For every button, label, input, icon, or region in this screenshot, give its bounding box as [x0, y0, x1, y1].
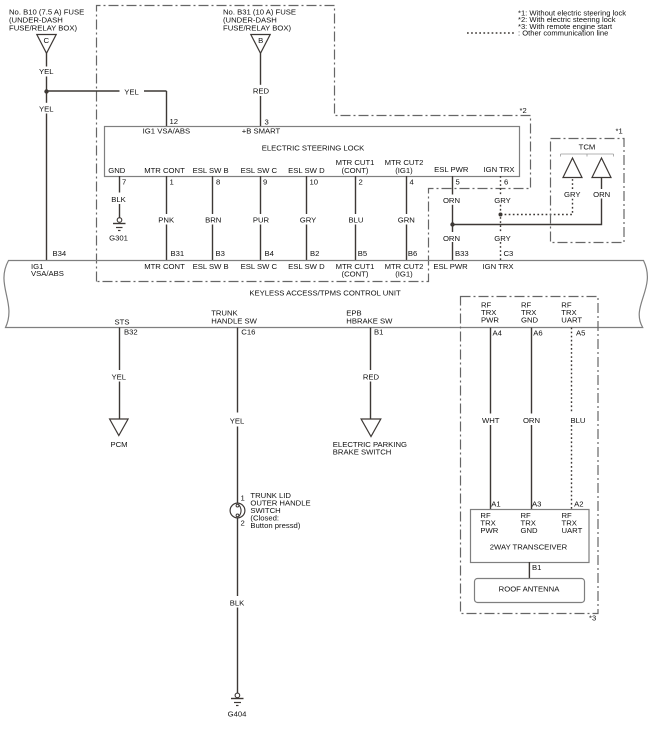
- ELECTRIC PARKING BRAKE SWITCH destination triangle: [361, 419, 381, 437]
- 2WAY TRANSCEIVER box: [471, 510, 590, 563]
- wire BLU MTR CUT1 pin2 to B5: [355, 176, 357, 214]
- svg-text:HANDLE SW: HANDLE SW: [211, 317, 257, 326]
- wire YEL branch right to pin 12: [47, 90, 120, 92]
- wire PNK MTR CONT pin1 to B31: [166, 176, 168, 214]
- svg-text:1: 1: [241, 494, 245, 503]
- svg-text:ESL SW D: ESL SW D: [288, 262, 325, 271]
- svg-text:2: 2: [241, 519, 245, 528]
- svg-text:YEL: YEL: [112, 372, 127, 381]
- svg-text:C: C: [44, 36, 50, 45]
- svg-text:HBRAKE SW: HBRAKE SW: [346, 317, 393, 326]
- svg-text:B34: B34: [53, 249, 67, 258]
- svg-text:GRY: GRY: [494, 234, 511, 243]
- svg-text:GRY: GRY: [494, 196, 511, 205]
- svg-text:BLK: BLK: [111, 195, 126, 204]
- svg-text:IGN TRX: IGN TRX: [482, 262, 513, 271]
- wire PUR ESL SW C pin9 to B4: [260, 176, 262, 214]
- wire ORN ESL PWR pin5 to B33 and TCM: [452, 176, 454, 195]
- svg-text:5: 5: [456, 177, 460, 186]
- svg-text:B33: B33: [455, 249, 469, 258]
- svg-text:ESL PWR: ESL PWR: [434, 165, 469, 174]
- wire WHT RF TRX PWR: [490, 328, 492, 414]
- svg-text:1: 1: [170, 177, 174, 186]
- svg-text:FUSE/RELAY BOX): FUSE/RELAY BOX): [9, 24, 78, 33]
- svg-text:ESL SW B: ESL SW B: [193, 166, 229, 175]
- svg-text:8: 8: [216, 177, 220, 186]
- svg-text:FUSE/RELAY BOX): FUSE/RELAY BOX): [223, 24, 292, 33]
- svg-text:RED: RED: [363, 372, 380, 381]
- wire BLU RF TRX UART dotted: [571, 328, 573, 414]
- svg-text:: Other communication line: : Other communication line: [518, 28, 608, 37]
- svg-text:C16: C16: [241, 328, 255, 337]
- svg-text:(CONT): (CONT): [342, 270, 369, 279]
- svg-text:C3: C3: [504, 249, 514, 258]
- wire GRY IGN TRX pin6 dotted to C3 and TCM: [500, 176, 502, 195]
- svg-text:G404: G404: [228, 710, 248, 719]
- svg-text:PUR: PUR: [253, 216, 270, 225]
- svg-text:B: B: [258, 36, 263, 45]
- svg-text:GND: GND: [521, 526, 539, 535]
- wire RED from fuse B down to pin 3: [260, 53, 262, 85]
- svg-text:IG1 VSA/ABS: IG1 VSA/ABS: [143, 127, 190, 136]
- svg-text:B1: B1: [374, 328, 383, 337]
- svg-text:A4: A4: [493, 329, 503, 338]
- svg-text:A1: A1: [491, 500, 500, 509]
- svg-text:4: 4: [410, 177, 415, 186]
- svg-text:2WAY TRANSCEIVER: 2WAY TRANSCEIVER: [490, 543, 568, 552]
- PCM destination triangle: [110, 419, 129, 436]
- svg-text:ESL SW B: ESL SW B: [193, 262, 229, 271]
- svg-text:7: 7: [122, 177, 126, 186]
- legend dotted sample line: [467, 32, 516, 34]
- svg-text:12: 12: [170, 117, 179, 126]
- wire BRN ESL SW B pin8 to B3: [212, 176, 214, 214]
- svg-text:G301: G301: [109, 234, 128, 243]
- svg-text:B6: B6: [408, 249, 417, 258]
- svg-text:B1: B1: [532, 563, 541, 572]
- svg-text:BLU: BLU: [349, 216, 364, 225]
- svg-text:2: 2: [359, 177, 363, 186]
- dash-dot option border *2 (with electric steering lock region): [97, 6, 531, 282]
- svg-text:B2: B2: [310, 249, 319, 258]
- svg-text:YEL: YEL: [39, 104, 54, 113]
- svg-text:*2: *2: [520, 106, 527, 115]
- svg-text:GRY: GRY: [564, 190, 581, 199]
- svg-text:(IG1): (IG1): [395, 270, 413, 279]
- svg-text:*3: *3: [589, 614, 596, 623]
- svg-text:UART: UART: [561, 315, 582, 324]
- ground G404: [235, 693, 240, 698]
- wire GRY dotted horizontal to TCM: [501, 199, 573, 215]
- ELECTRIC STEERING LOCK unit box U-ESL: [105, 127, 520, 177]
- svg-text:STS: STS: [115, 318, 130, 327]
- svg-text:9: 9: [263, 177, 267, 186]
- wire YEL trunk handle sw: [237, 328, 239, 413]
- wire BLK from GND pin 7: [119, 176, 121, 193]
- wire BLK trunk switch to ground: [237, 518, 239, 596]
- svg-text:TCM: TCM: [579, 142, 596, 151]
- svg-text:YEL: YEL: [39, 67, 54, 76]
- trunk lid outer handle switch SW1: [230, 503, 245, 518]
- svg-text:PCM: PCM: [110, 440, 127, 449]
- svg-text:ORN: ORN: [523, 416, 540, 425]
- svg-text:B5: B5: [358, 249, 367, 258]
- fuse connector C triangle: [37, 35, 56, 54]
- dash-dot option border *3 (remote engine start region): [461, 297, 599, 614]
- svg-text:Button pressd): Button pressd): [250, 521, 300, 530]
- TCM connector triangle GRY: [563, 158, 582, 178]
- junction node GRY dotted: [499, 213, 503, 217]
- svg-text:BLK: BLK: [230, 599, 245, 608]
- svg-text:RED: RED: [253, 87, 270, 96]
- svg-text:GND: GND: [108, 166, 126, 175]
- svg-text:IGN TRX: IGN TRX: [483, 165, 514, 174]
- svg-text:ESL SW C: ESL SW C: [241, 262, 278, 271]
- TCM connector bracket: [561, 154, 614, 157]
- svg-text:VSA/ABS: VSA/ABS: [31, 269, 64, 278]
- svg-text:BRN: BRN: [205, 216, 221, 225]
- TCM dash-dot box: [551, 139, 625, 243]
- svg-text:PNK: PNK: [158, 216, 175, 225]
- TCM connector triangle ORN: [592, 158, 611, 178]
- svg-text:3: 3: [265, 118, 269, 127]
- wire B1 transceiver to roof antenna: [528, 562, 530, 578]
- wire GRY ESL SW D pin10 to B2: [306, 176, 308, 214]
- svg-text:PWR: PWR: [480, 526, 498, 535]
- wire ORN horizontal to TCM: [453, 199, 602, 225]
- svg-text:WHT: WHT: [482, 416, 500, 425]
- junction node ORN: [450, 222, 454, 226]
- wire YEL from fuse C down: [46, 53, 48, 66]
- svg-text:GND: GND: [521, 315, 539, 324]
- svg-text:+B SMART: +B SMART: [242, 127, 281, 136]
- KEYLESS ACCESS/TPMS CONTROL UNIT box with wavy ends: [4, 261, 647, 328]
- svg-text:ESL SW D: ESL SW D: [288, 166, 325, 175]
- ground G301: [117, 218, 122, 223]
- svg-text:ORN: ORN: [443, 196, 460, 205]
- svg-text:A2: A2: [574, 500, 583, 509]
- svg-text:B31: B31: [171, 249, 185, 258]
- svg-text:A6: A6: [533, 329, 542, 338]
- svg-text:ESL PWR: ESL PWR: [433, 262, 468, 271]
- svg-text:YEL: YEL: [230, 417, 245, 426]
- svg-text:B32: B32: [124, 328, 138, 337]
- svg-text:MTR CONT: MTR CONT: [144, 166, 185, 175]
- svg-text:GRN: GRN: [398, 216, 415, 225]
- wire ORN RF TRX GND: [531, 328, 533, 414]
- svg-text:PWR: PWR: [481, 315, 499, 324]
- svg-text:*1: *1: [616, 126, 623, 135]
- svg-text:ORN: ORN: [443, 234, 460, 243]
- svg-text:ROOF ANTENNA: ROOF ANTENNA: [499, 585, 561, 594]
- svg-text:B3: B3: [216, 249, 225, 258]
- svg-text:ELECTRIC STEERING LOCK: ELECTRIC STEERING LOCK: [262, 144, 365, 153]
- svg-text:6: 6: [504, 177, 508, 186]
- svg-text:A3: A3: [532, 500, 541, 509]
- wire YEL STS to PCM: [119, 328, 121, 371]
- svg-text:UART: UART: [562, 526, 583, 535]
- junction node on YEL wire: [44, 89, 48, 93]
- wire YEL continues down to B34: [46, 91, 48, 103]
- wire RED EPB to brake switch: [370, 328, 372, 371]
- svg-text:A5: A5: [576, 329, 585, 338]
- svg-text:GRY: GRY: [300, 216, 317, 225]
- svg-text:ORN: ORN: [593, 190, 610, 199]
- svg-text:BRAKE SWITCH: BRAKE SWITCH: [333, 448, 392, 457]
- fuse connector B triangle: [251, 35, 270, 54]
- ROOF ANTENNA box: [475, 579, 585, 603]
- svg-text:B4: B4: [265, 249, 275, 258]
- wire GRN MTR CUT2 pin4 to B6: [406, 176, 408, 214]
- svg-text:(IG1): (IG1): [395, 166, 413, 175]
- svg-text:BLU: BLU: [571, 416, 586, 425]
- svg-text:YEL: YEL: [124, 88, 139, 97]
- svg-text:KEYLESS ACCESS/TPMS CONTROL UN: KEYLESS ACCESS/TPMS CONTROL UNIT: [249, 289, 401, 298]
- svg-text:MTR CONT: MTR CONT: [144, 262, 185, 271]
- svg-text:(CONT): (CONT): [342, 166, 369, 175]
- svg-text:ESL SW C: ESL SW C: [241, 166, 278, 175]
- svg-text:10: 10: [310, 177, 319, 186]
